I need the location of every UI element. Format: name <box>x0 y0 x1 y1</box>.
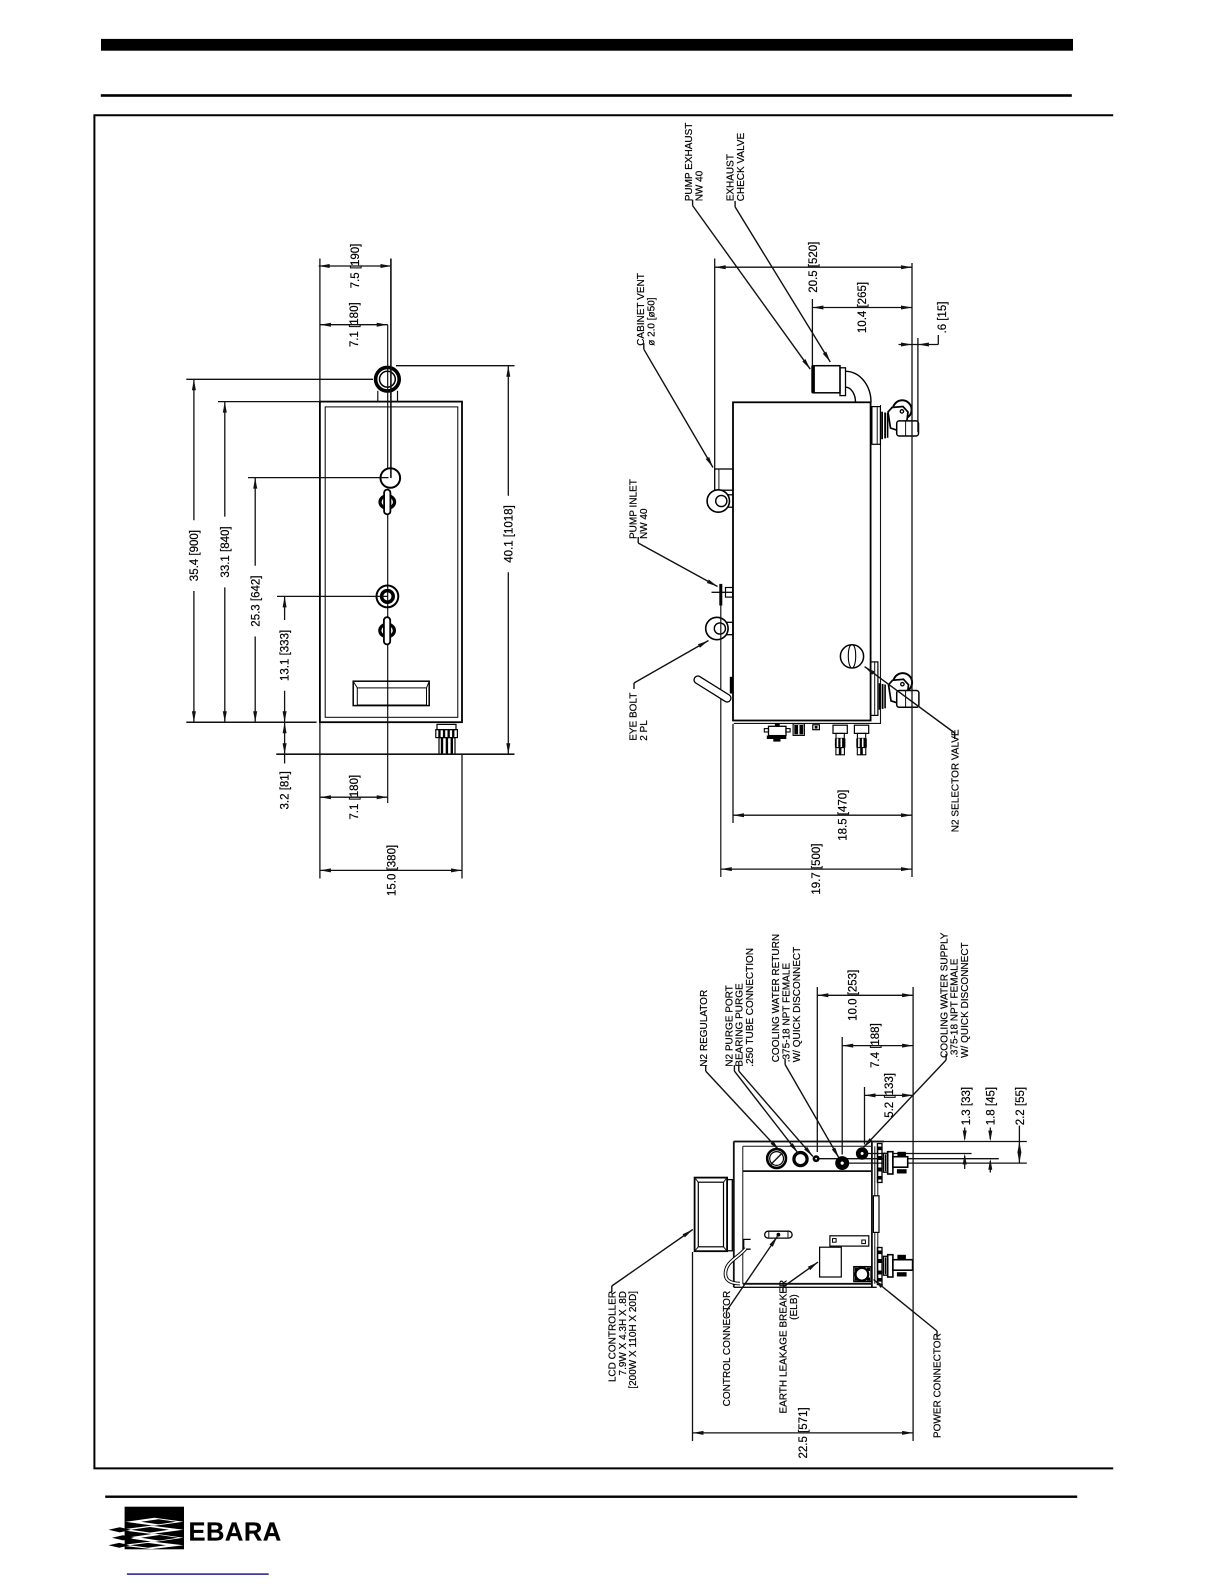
svg-text:(ELB): (ELB) <box>789 1294 800 1320</box>
svg-text:W/ QUICK DISCONNECT: W/ QUICK DISCONNECT <box>960 942 971 1058</box>
svg-text:19.7 [500]: 19.7 [500] <box>811 844 823 895</box>
svg-text:CABINET VENT: CABINET VENT <box>636 273 647 346</box>
svg-text:N2 REGULATOR: N2 REGULATOR <box>699 990 710 1067</box>
svg-text:[200W X 110H X 20D]: [200W X 110H X 20D] <box>628 1291 639 1389</box>
svg-text:.375-18 NPT FEMALE: .375-18 NPT FEMALE <box>782 963 793 1063</box>
svg-text:22.5 [571]: 22.5 [571] <box>798 1407 810 1458</box>
svg-text:NW 40: NW 40 <box>639 508 650 539</box>
svg-text:EBARA: EBARA <box>189 1519 282 1547</box>
svg-text:7.5 [190]: 7.5 [190] <box>350 244 362 289</box>
svg-text:N2 SELECTOR VALVE: N2 SELECTOR VALVE <box>950 729 961 832</box>
svg-text:ø 2.0 [ø50]: ø 2.0 [ø50] <box>646 297 657 346</box>
svg-text:40.1 [1018]: 40.1 [1018] <box>503 505 515 563</box>
svg-text:15.0 [380]: 15.0 [380] <box>387 845 399 896</box>
svg-text:33.1 [840]: 33.1 [840] <box>220 526 232 577</box>
svg-text:20.5 [520]: 20.5 [520] <box>808 242 820 293</box>
svg-text:1.8 [45]: 1.8 [45] <box>985 1087 997 1125</box>
svg-text:NW 40: NW 40 <box>694 170 705 201</box>
svg-text:1.3 [33]: 1.3 [33] <box>961 1087 973 1125</box>
svg-text:COOLING WATER SUPPLY: COOLING WATER SUPPLY <box>939 932 950 1058</box>
svg-text:7.4 [188]: 7.4 [188] <box>870 1023 882 1068</box>
svg-text:3.2 [81]: 3.2 [81] <box>280 771 292 809</box>
svg-text:BEARING PURGE: BEARING PURGE <box>735 983 746 1067</box>
svg-text:7.9W X 4.3H X .8D: 7.9W X 4.3H X .8D <box>618 1291 629 1375</box>
svg-text:2.2 [55]: 2.2 [55] <box>1015 1087 1027 1125</box>
svg-text:7.1 [180]: 7.1 [180] <box>349 302 361 347</box>
svg-text:25.3 [642]: 25.3 [642] <box>250 576 262 627</box>
svg-text:POWER CONNECTOR: POWER CONNECTOR <box>933 1333 944 1438</box>
svg-text:.6 [15]: .6 [15] <box>937 302 949 334</box>
svg-text:35.4 [900]: 35.4 [900] <box>189 530 201 581</box>
svg-text:PUMP EXHAUST: PUMP EXHAUST <box>684 123 695 202</box>
svg-text:10.0 [253]: 10.0 [253] <box>848 970 860 1021</box>
svg-text:2 PL: 2 PL <box>639 720 650 741</box>
svg-text:10.4 [265]: 10.4 [265] <box>857 282 869 333</box>
svg-text:PUMP INLET: PUMP INLET <box>629 479 640 539</box>
svg-text:W/ QUICK DISCONNECT: W/ QUICK DISCONNECT <box>792 947 803 1063</box>
svg-text:COOLING WATER RETURN: COOLING WATER RETURN <box>771 934 782 1062</box>
svg-text:.375-18 NPT FEMALE: .375-18 NPT FEMALE <box>950 958 961 1058</box>
svg-text:5.2 [133]: 5.2 [133] <box>884 1073 896 1118</box>
svg-text:18.5 [470]: 18.5 [470] <box>837 790 849 841</box>
svg-text:EARTH LEAKAGE BREAKER: EARTH LEAKAGE BREAKER <box>779 1280 790 1414</box>
svg-text:7.1 [180]: 7.1 [180] <box>349 775 361 820</box>
svg-text:EXHAUST: EXHAUST <box>726 154 737 201</box>
svg-text:13.1 [333]: 13.1 [333] <box>280 630 292 681</box>
svg-text:N2 PURGE PORT: N2 PURGE PORT <box>724 985 735 1067</box>
svg-text:EYE BOLT: EYE BOLT <box>629 693 640 741</box>
svg-text:CHECK VALVE: CHECK VALVE <box>736 132 747 201</box>
svg-text:.250 TUBE CONNECTION: .250 TUBE CONNECTION <box>745 948 756 1067</box>
svg-text:LCD CONTROLLER: LCD CONTROLLER <box>607 1291 618 1382</box>
